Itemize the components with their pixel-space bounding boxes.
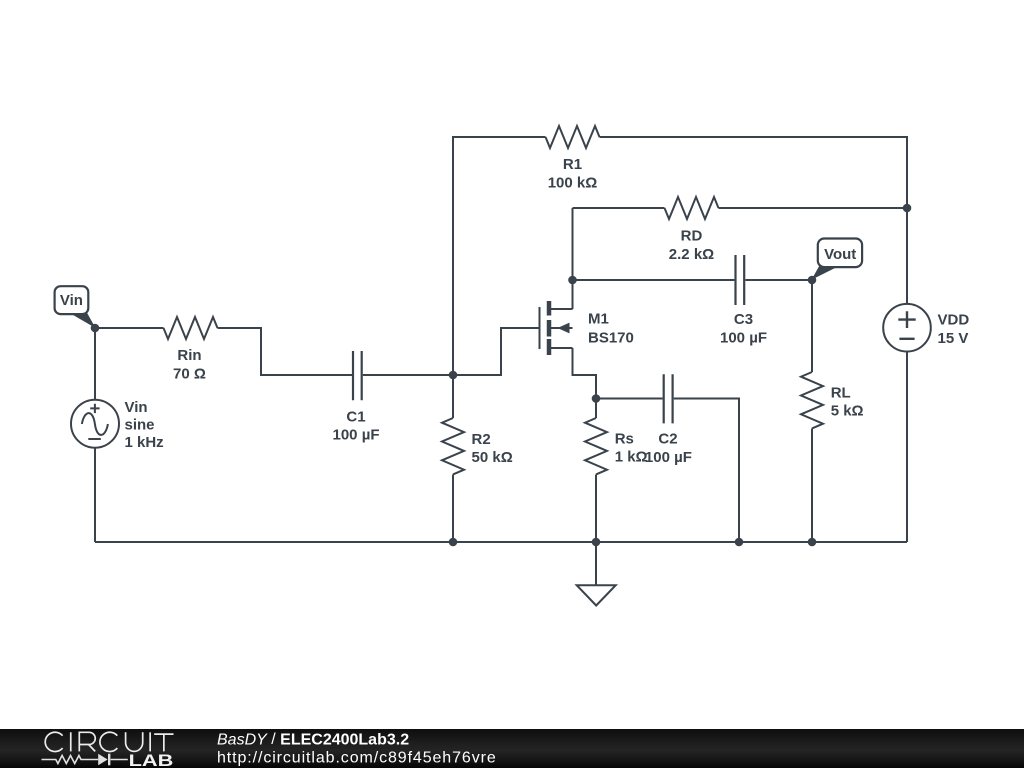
wire: Vin node to Rin bbox=[95, 327, 164, 329]
svg-text:50 kΩ: 50 kΩ bbox=[472, 449, 513, 466]
MOSFET M1 channel bars bbox=[547, 301, 552, 355]
svg-text:R2: R2 bbox=[472, 431, 491, 448]
voltage source Vin bbox=[71, 400, 119, 448]
ground symbol bbox=[577, 585, 616, 605]
resistor R2 bbox=[442, 418, 464, 474]
wire: R2 top lead from node A bbox=[452, 375, 454, 418]
svg-text:15 V: 15 V bbox=[938, 330, 969, 347]
svg-text:1 kΩ: 1 kΩ bbox=[615, 449, 648, 466]
wire: Rs to bottom rail bbox=[595, 475, 597, 543]
node: R2 bottom junction bbox=[449, 538, 458, 547]
node: C2 bottom junction bbox=[735, 538, 744, 547]
node A junction (C1/R1/R2/gate) bbox=[449, 371, 458, 380]
node flag Vin bbox=[55, 286, 89, 314]
wire: C3 to Vout node bbox=[745, 279, 812, 281]
wire: drain column to RD bbox=[573, 207, 665, 209]
svg-text:C1: C1 bbox=[346, 409, 365, 426]
svg-text:100 kΩ: 100 kΩ bbox=[548, 174, 598, 191]
ground stem bbox=[595, 542, 597, 585]
wire: Vin source top lead bbox=[94, 328, 96, 400]
resistor RD bbox=[665, 197, 719, 219]
svg-text:BS170: BS170 bbox=[588, 330, 634, 347]
svg-text:Rin: Rin bbox=[177, 347, 201, 364]
node: Vout junction bbox=[808, 276, 817, 285]
CircuitLab logo wordmark CIRCUIT bbox=[45, 732, 173, 751]
wire: Rs node down to Rs bbox=[595, 399, 597, 419]
resistor R1 bbox=[546, 126, 600, 148]
svg-text:100 µF: 100 µF bbox=[333, 427, 380, 444]
resistor Rin bbox=[164, 317, 218, 339]
svg-text:70 Ω: 70 Ω bbox=[173, 366, 206, 383]
VDD plus sign bbox=[898, 311, 915, 328]
wire: C2 to bottom rail (right jog) bbox=[674, 399, 739, 543]
wire: node A to MOSFET gate bbox=[453, 328, 539, 375]
svg-text:RD: RD bbox=[681, 228, 703, 245]
svg-text:C2: C2 bbox=[658, 431, 677, 448]
node: RL bottom junction bbox=[808, 538, 817, 547]
svg-text:Vout: Vout bbox=[824, 246, 856, 263]
wire: VDD source bottom lead to bottom rail bbox=[906, 352, 908, 543]
voltage source VDD bbox=[883, 304, 931, 352]
MOSFET M1 bulk lead bbox=[551, 327, 573, 329]
wire: C1 to node A bbox=[363, 374, 453, 376]
Vin flag pointer bbox=[71, 311, 96, 328]
wire: node A up to R1 bbox=[453, 137, 546, 375]
node: drain junction bbox=[568, 276, 577, 285]
wire: Vin source bottom lead bbox=[94, 448, 96, 542]
wire: bottom rail bbox=[95, 541, 907, 543]
svg-text:sine: sine bbox=[125, 417, 155, 434]
CircuitLab logo resistor-diode glyph bbox=[42, 754, 128, 766]
svg-text:VDD: VDD bbox=[938, 312, 970, 329]
svg-text:Vin: Vin bbox=[125, 399, 148, 416]
svg-text:2.2 kΩ: 2.2 kΩ bbox=[669, 246, 714, 263]
wire: Vout node to RL bbox=[811, 280, 813, 372]
wire: drain node to C3 bbox=[573, 279, 735, 281]
node: Vin junction bbox=[91, 324, 100, 333]
wire: R2 to bottom rail bbox=[452, 475, 454, 543]
svg-text:BasDY / ELEC2400Lab3.2: BasDY / ELEC2400Lab3.2 bbox=[217, 731, 409, 748]
MOSFET M1 source lead bbox=[551, 347, 573, 349]
wire: Rin to C1 left plate (with jog down) bbox=[218, 328, 353, 375]
MOSFET M1 drain lead bbox=[551, 308, 573, 310]
wire: R1 to VDD column top rail bbox=[600, 137, 908, 208]
node: ground junction bbox=[592, 538, 601, 547]
resistor RL bbox=[801, 372, 823, 428]
wire: RD to VDD column bbox=[719, 207, 908, 209]
svg-text:RL: RL bbox=[831, 384, 851, 401]
svg-text:100 µF: 100 µF bbox=[720, 329, 767, 346]
node flag Vout bbox=[818, 239, 862, 268]
MOSFET M1 gate line bbox=[539, 307, 541, 349]
wire: M1 source to Rs node bbox=[573, 348, 597, 399]
Vin source sine wave bbox=[82, 413, 108, 435]
MOSFET M1 bulk arrow bbox=[558, 323, 570, 334]
wire: Rs node to C2 bbox=[596, 398, 663, 400]
svg-text:Rs: Rs bbox=[615, 431, 634, 448]
wire: VDD source top lead bbox=[906, 208, 908, 304]
Vout flag pointer bbox=[812, 266, 839, 280]
svg-text:C3: C3 bbox=[734, 311, 753, 328]
svg-text:http://circuitlab.com/c89f45eh: http://circuitlab.com/c89f45eh76vre bbox=[217, 750, 497, 767]
svg-text:LAB: LAB bbox=[129, 752, 174, 768]
svg-text:Vin: Vin bbox=[60, 292, 83, 309]
Vin source plus sign bbox=[90, 404, 99, 413]
node: source/Rs/C2 junction bbox=[592, 394, 601, 403]
svg-text:M1: M1 bbox=[588, 311, 609, 328]
svg-text:1 kHz: 1 kHz bbox=[125, 434, 164, 451]
svg-text:100 µF: 100 µF bbox=[645, 449, 692, 466]
wire: RL to bottom rail bbox=[811, 429, 813, 543]
resistor Rs bbox=[585, 418, 607, 474]
footer bar bbox=[0, 729, 1024, 768]
capacitor C1 bbox=[353, 351, 362, 400]
svg-text:R1: R1 bbox=[563, 156, 582, 173]
Vin source minus sign bbox=[88, 438, 101, 440]
svg-text:5 kΩ: 5 kΩ bbox=[831, 402, 864, 419]
node: RD/VDD junction bbox=[903, 204, 912, 213]
wire: drain vertical (RD line down to M1 drain) bbox=[572, 208, 574, 309]
capacitor C3 bbox=[736, 255, 745, 305]
VDD minus sign bbox=[899, 338, 914, 340]
capacitor C2 bbox=[664, 374, 673, 423]
